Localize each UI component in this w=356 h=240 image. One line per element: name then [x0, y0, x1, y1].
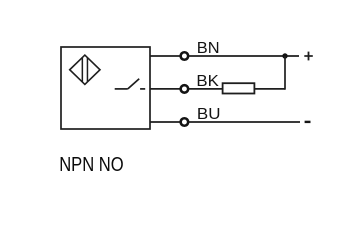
switch (NO contact): [115, 79, 146, 89]
wire BN (box to terminal): [150, 55, 180, 57]
proximity sensor symbol (diamond): [70, 55, 100, 84]
junction node: [282, 53, 287, 58]
svg-text:BN: BN: [197, 40, 220, 57]
wire BU (box to terminal): [150, 121, 180, 123]
wire BK (box to terminal): [150, 88, 180, 90]
wire BU (terminal to - rail): [189, 121, 300, 123]
minus terminal: [305, 121, 311, 123]
wire BK (corner up to junction): [284, 56, 286, 90]
wire BK (terminal to resistor): [189, 88, 223, 90]
plus terminal: [304, 52, 313, 61]
sensor body (enclosure box): [61, 47, 150, 129]
terminal BU: [181, 118, 189, 126]
wire BN (terminal to + rail): [189, 55, 299, 57]
svg-text:BU: BU: [197, 106, 221, 123]
svg-text:BK: BK: [196, 73, 219, 90]
terminal BN: [181, 52, 189, 60]
terminal BK: [181, 85, 189, 93]
wire BK (resistor to corner): [254, 88, 285, 90]
svg-text:NPN NO: NPN NO: [59, 153, 124, 176]
resistor (load): [223, 83, 255, 93]
